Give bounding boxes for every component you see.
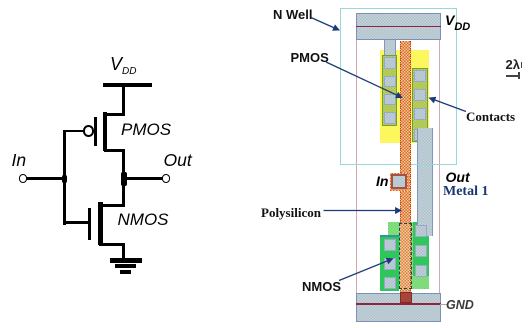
transistor PMOS : gate plate [94, 117, 97, 146]
wire In to gate bus [26, 177, 65, 180]
label PMOS [121, 121, 171, 138]
contact [414, 108, 426, 120]
leader line to GND label [440, 304, 447, 305]
wire NMOS drain stub [99, 204, 125, 207]
NMOS gate dashed outline [399, 223, 412, 290]
node In junction blob [62, 175, 67, 183]
contact [414, 89, 426, 101]
GND metal1 rail (layout) [356, 293, 441, 322]
transistor PMOS : channel plate [103, 112, 107, 151]
NMOS source contact column (left, bright green) [380, 235, 399, 291]
wire PMOS source stub [104, 113, 125, 116]
label NMOS (layout) [302, 279, 341, 294]
polysilicon gate region over NMOS (lighter) [400, 223, 410, 289]
PMOS drain contact column (right, diffusion) [412, 68, 428, 143]
contact [384, 112, 396, 124]
wire PMOS drain stub [104, 149, 125, 152]
contact [415, 245, 428, 257]
ground symbol bar 3 [120, 270, 131, 274]
contact [384, 258, 397, 270]
ground symbol bar 1 [110, 258, 143, 262]
VDD rail bar [103, 83, 152, 87]
p+ diffusion yellow region right (PMOS) [410, 50, 429, 143]
In poly contact (square) [390, 173, 408, 191]
p+ diffusion yellow region left (PMOS) [380, 50, 400, 143]
scale marker 2-lambda [506, 58, 520, 71]
contact [415, 225, 428, 237]
transistor NMOS : gate plate [88, 208, 91, 240]
NMOS active region (light green) [388, 222, 429, 289]
label Contacts [466, 109, 515, 125]
wire Out node to Out terminal [125, 177, 163, 180]
wire NMOS source stub [99, 243, 125, 246]
label GND (layout) [446, 298, 474, 312]
VDD rail dark red line [356, 26, 441, 28]
Out metal1 bar (drain connection) [417, 128, 433, 236]
GND rail dark red line [356, 303, 441, 305]
label PMOS (layout) [291, 50, 329, 65]
arrow N Well label to boundary [311, 18, 339, 31]
arrow NMOS label to active [339, 259, 393, 281]
wire gate bus to PMOS bubble [63, 130, 83, 133]
label N Well [273, 7, 313, 22]
label VDD (layout) [445, 13, 470, 28]
label In (schematic) [12, 152, 27, 170]
metal stub VDD to PMOS source contacts [384, 40, 396, 57]
contact [384, 57, 396, 69]
wire vertical spine PMOS drain to NMOS drain (through Out node) [122, 150, 125, 206]
wire VDD rail to PMOS source [122, 86, 125, 115]
contact [384, 277, 397, 289]
label VDD (schematic supply) [110, 55, 136, 74]
arrow Polysilicon label to poly [324, 210, 402, 212]
NMOS drain contact column (right, bright green) [413, 222, 429, 277]
In terminal circle [19, 174, 27, 182]
transistor NMOS : channel plate [98, 202, 103, 246]
poly substrate contact square (brown) [400, 292, 413, 303]
label NMOS [118, 211, 169, 228]
wire NMOS source to ground [122, 244, 125, 259]
Out terminal circle [162, 174, 170, 182]
transistor PMOS : gate bubble [83, 125, 94, 136]
N-well boundary (cyan outline) [340, 8, 457, 165]
contact [414, 129, 426, 141]
ground symbol bar 2 [115, 264, 136, 268]
wire gate bus to NMOS gate [63, 221, 89, 224]
PMOS source contact column (left, diffusion) [382, 55, 397, 126]
label Polysilicon [261, 205, 321, 221]
contact [414, 70, 426, 82]
wire gate bus vertical [63, 130, 66, 225]
VDD metal1 rail (layout) [356, 13, 441, 41]
contact [384, 76, 396, 88]
polysilicon vertical strip [400, 41, 411, 293]
pink cell boundary outline [356, 13, 440, 322]
node Out junction blob [121, 172, 127, 187]
label Out (schematic) [164, 152, 192, 170]
contact [384, 94, 396, 106]
label Metal 1 [443, 184, 488, 200]
arrow PMOS label to gate [326, 62, 402, 98]
contact [415, 265, 428, 277]
label In (layout) [376, 173, 388, 189]
arrow Contacts label to contact [430, 98, 467, 112]
contact [384, 239, 397, 251]
label Out (layout) [446, 169, 470, 185]
